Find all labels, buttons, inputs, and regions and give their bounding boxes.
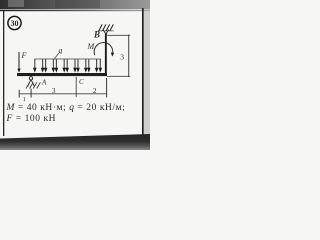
right margin gray strip: [144, 8, 151, 136]
support A hatching: [26, 82, 40, 88]
distributed load q top line: [34, 58, 101, 60]
right dimension top tick: [107, 34, 130, 36]
beam AC: [17, 73, 107, 76]
svg-text:C: C: [79, 78, 84, 86]
distributed load arrowheads: [33, 68, 102, 73]
svg-text:F: F: [21, 51, 27, 60]
ceiling hatching at B: [99, 24, 114, 31]
svg-text:2: 2: [93, 87, 97, 95]
svg-text:F = 100 кН: F = 100 кН: [6, 114, 57, 124]
svg-text:3: 3: [52, 87, 56, 95]
svg-text:q: q: [59, 46, 63, 55]
problem number circle 30: [8, 16, 21, 29]
left frame line: [3, 11, 4, 136]
support A legs: [28, 80, 35, 87]
support A pin: [29, 77, 32, 80]
top frame line: [0, 10, 150, 12]
pin fork at B: [103, 30, 109, 34]
bottom dimension line: [19, 93, 107, 95]
moment M arrowhead: [111, 52, 114, 56]
svg-text:B: B: [93, 29, 100, 39]
right dimension vertical line: [128, 35, 130, 77]
moment M arc: [94, 43, 113, 56]
right dimension bottom tick: [107, 75, 130, 77]
distributed load arrows: [35, 59, 101, 69]
svg-text:A: A: [41, 79, 47, 87]
svg-text:3: 3: [120, 53, 124, 62]
dimension ticks: [19, 78, 106, 98]
ceiling line at B: [98, 30, 114, 32]
bottom dark band (photo edge): [0, 134, 150, 150]
svg-text:M: M: [87, 42, 96, 51]
top band light patch: [8, 0, 24, 7]
paper background: [0, 0, 150, 150]
svg-text:30: 30: [11, 19, 19, 28]
node C extension line: [75, 77, 77, 97]
rod CB vertical member: [105, 33, 107, 74]
top dark band (photo edge): [0, 0, 150, 9]
right frame line: [142, 8, 144, 135]
force F arrow: [18, 52, 20, 69]
svg-text:M = 40 кН·м; q = 20 кН/м;: M = 40 кН·м; q = 20 кН/м;: [6, 103, 126, 113]
q leader line: [55, 52, 60, 58]
